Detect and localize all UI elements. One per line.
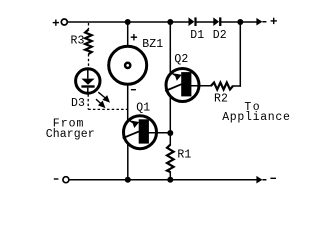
- svg-text:BZ1: BZ1: [142, 38, 163, 51]
- svg-text:Q1: Q1: [136, 102, 150, 115]
- svg-text:D3: D3: [71, 97, 85, 110]
- svg-text:Q2: Q2: [174, 53, 188, 66]
- svg-text:R2: R2: [214, 93, 228, 106]
- svg-text:D2: D2: [213, 29, 227, 42]
- svg-text:Appliance: Appliance: [222, 111, 290, 124]
- svg-text:D1: D1: [190, 29, 204, 42]
- svg-text:R1: R1: [177, 149, 191, 162]
- svg-text:Charger: Charger: [46, 128, 95, 141]
- svg-text:R3: R3: [71, 35, 85, 48]
